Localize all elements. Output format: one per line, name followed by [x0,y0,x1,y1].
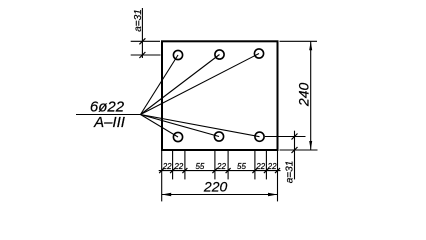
svg-text:A–III: A–III [93,114,125,131]
svg-text:240: 240 [295,83,311,108]
svg-text:55: 55 [237,162,246,171]
svg-text:a=31: a=31 [133,9,144,32]
svg-text:22: 22 [255,162,265,171]
svg-text:6ø22: 6ø22 [90,98,125,115]
svg-text:220: 220 [203,179,228,195]
svg-text:22: 22 [173,162,183,171]
svg-text:a=31: a=31 [285,161,296,184]
svg-text:22: 22 [216,162,226,171]
svg-text:22: 22 [267,162,277,171]
svg-text:22: 22 [162,162,172,171]
svg-text:55: 55 [195,162,204,171]
